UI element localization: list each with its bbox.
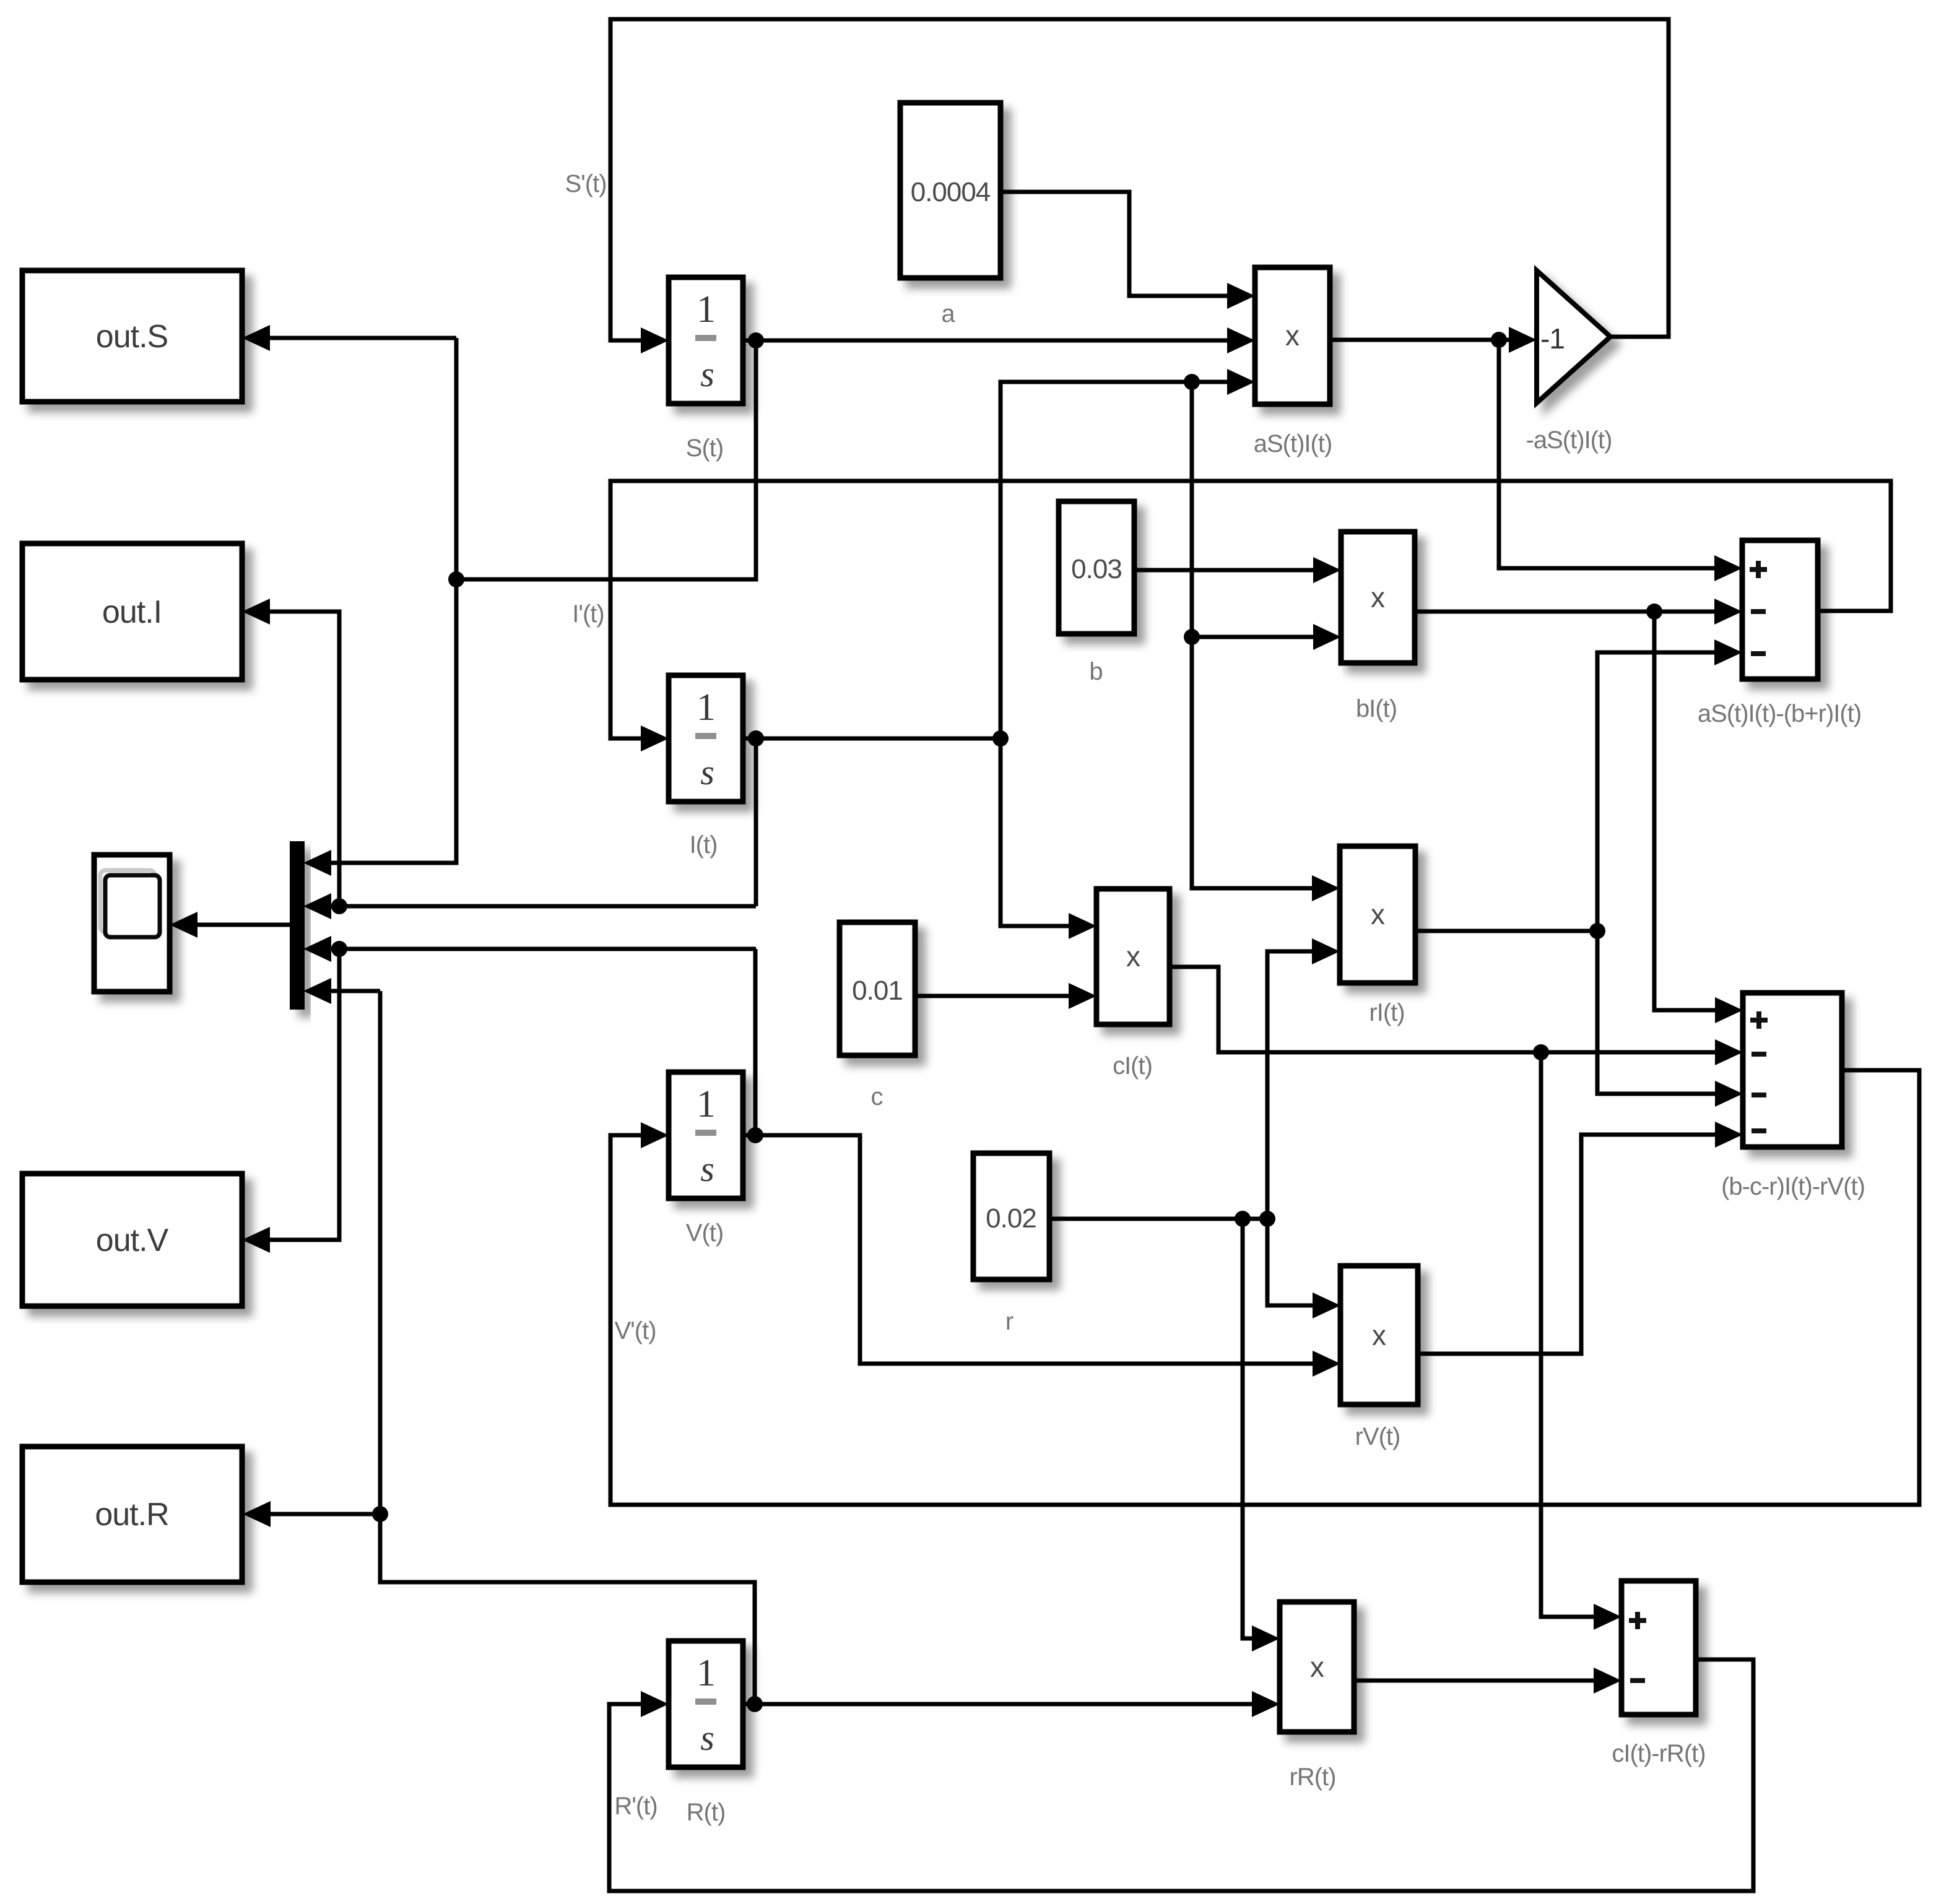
svg-text:out.I: out.I: [102, 594, 162, 630]
svg-text:cI(t)-rR(t): cI(t)-rR(t): [1612, 1740, 1705, 1767]
svg-text:out.V: out.V: [96, 1222, 169, 1258]
svg-text:s: s: [700, 1149, 714, 1189]
svg-text:x: x: [1371, 898, 1385, 930]
svg-text:1: 1: [697, 288, 715, 331]
svg-text:x: x: [1371, 581, 1385, 613]
svg-text:1: 1: [697, 1083, 715, 1125]
svg-text:r: r: [1005, 1308, 1014, 1335]
svg-text:S'(t): S'(t): [565, 170, 606, 197]
svg-text:x: x: [1310, 1651, 1324, 1683]
svg-text:1: 1: [697, 1652, 715, 1694]
svg-text:R'(t): R'(t): [614, 1793, 657, 1820]
svg-text:V'(t): V'(t): [614, 1317, 656, 1344]
svg-text:rV(t): rV(t): [1355, 1423, 1400, 1450]
svg-text:I(t): I(t): [690, 831, 718, 859]
svg-text:x: x: [1126, 940, 1140, 972]
svg-text:V(t): V(t): [686, 1219, 723, 1247]
svg-text:I'(t): I'(t): [572, 600, 604, 628]
svg-text:a: a: [941, 300, 955, 327]
svg-text:-1: -1: [1540, 322, 1565, 355]
svg-text:rI(t): rI(t): [1369, 999, 1404, 1026]
svg-text:b: b: [1089, 658, 1102, 685]
svg-text:cI(t): cI(t): [1113, 1052, 1152, 1080]
svg-text:(b-c-r)I(t)-rV(t): (b-c-r)I(t)-rV(t): [1721, 1173, 1865, 1200]
svg-text:s: s: [700, 1718, 714, 1758]
svg-text:c: c: [871, 1083, 883, 1110]
svg-text:s: s: [700, 354, 714, 394]
svg-text:aS(t)I(t)-(b+r)I(t): aS(t)I(t)-(b+r)I(t): [1698, 700, 1861, 727]
svg-text:0.03: 0.03: [1071, 554, 1122, 584]
svg-text:bI(t): bI(t): [1356, 695, 1397, 722]
svg-text:0.02: 0.02: [986, 1203, 1036, 1234]
svg-text:rR(t): rR(t): [1290, 1763, 1336, 1791]
svg-text:R(t): R(t): [687, 1799, 726, 1826]
svg-text:out.R: out.R: [95, 1497, 168, 1533]
svg-text:S(t): S(t): [686, 435, 723, 462]
svg-text:x: x: [1372, 1319, 1386, 1351]
svg-text:x: x: [1285, 319, 1300, 352]
svg-text:-aS(t)I(t): -aS(t)I(t): [1526, 426, 1612, 454]
svg-text:0.01: 0.01: [852, 976, 903, 1006]
svg-text:s: s: [700, 752, 714, 792]
svg-text:1: 1: [697, 686, 715, 729]
svg-text:out.S: out.S: [96, 319, 168, 355]
svg-text:aS(t)I(t): aS(t)I(t): [1254, 430, 1332, 457]
svg-text:0.0004: 0.0004: [911, 177, 991, 207]
